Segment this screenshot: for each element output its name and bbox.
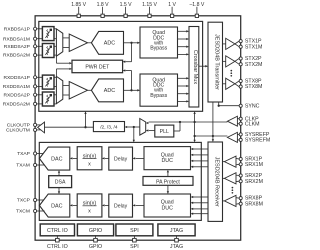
svg-text:PWR DET: PWR DET xyxy=(85,64,110,70)
svg-text:1 V: 1 V xyxy=(168,2,176,8)
svg-text:STX2M: STX2M xyxy=(245,62,263,68)
svg-text:ADC: ADC xyxy=(104,88,115,94)
svg-text:Delay: Delay xyxy=(114,203,128,209)
svg-text:CTRL IO: CTRL IO xyxy=(47,244,68,250)
svg-text:RXBDSA1M: RXBDSA1M xyxy=(3,36,30,42)
svg-text:SRX8M: SRX8M xyxy=(245,201,263,207)
svg-text:JTAG: JTAG xyxy=(170,244,183,250)
svg-text:STX1M: STX1M xyxy=(245,44,263,50)
svg-text:DAC: DAC xyxy=(51,203,62,209)
svg-text:SYNC: SYNC xyxy=(245,103,260,109)
svg-text:RXDDSA2M: RXDDSA2M xyxy=(3,101,30,107)
svg-text:JESD204B Receiver: JESD204B Receiver xyxy=(214,157,220,207)
svg-text:x: x xyxy=(88,209,91,215)
svg-text:SRX2M: SRX2M xyxy=(245,179,263,185)
svg-text:Bypass: Bypass xyxy=(150,93,167,99)
svg-text:SPI: SPI xyxy=(130,244,139,250)
svg-text:CTRL IO: CTRL IO xyxy=(47,228,68,234)
svg-text:DAC: DAC xyxy=(51,156,62,162)
svg-text:Delay: Delay xyxy=(114,156,128,162)
svg-text:TXCP: TXCP xyxy=(17,198,30,204)
svg-text:TXAP: TXAP xyxy=(17,151,30,157)
svg-text:SYSREFM: SYSREFM xyxy=(245,137,270,143)
svg-text:TXCM: TXCM xyxy=(16,209,30,215)
svg-text:DUC: DUC xyxy=(161,158,173,164)
svg-text:CLKOUTM: CLKOUTM xyxy=(6,127,30,133)
svg-text:DSA: DSA xyxy=(55,180,66,186)
svg-text:SRX1M: SRX1M xyxy=(245,162,263,168)
svg-text:RXDDSA1P: RXDDSA1P xyxy=(4,75,30,81)
svg-text:Crossbar Mux: Crossbar Mux xyxy=(192,50,198,84)
svg-text:RXBDSA2P: RXBDSA2P xyxy=(4,44,30,50)
svg-text:RXDDSA2P: RXDDSA2P xyxy=(4,92,30,98)
svg-text:STX8M: STX8M xyxy=(245,84,263,90)
svg-text:1.85 V: 1.85 V xyxy=(71,2,86,8)
svg-text:GPIO: GPIO xyxy=(89,228,102,234)
svg-text:/2, /3, /4: /2, /3, /4 xyxy=(100,124,118,130)
svg-text:RXDDSA1M: RXDDSA1M xyxy=(3,84,30,90)
svg-text:Bypass: Bypass xyxy=(150,46,167,52)
svg-text:ADC: ADC xyxy=(104,41,115,47)
svg-text:PLL: PLL xyxy=(160,129,169,135)
svg-text:CLKM: CLKM xyxy=(245,121,260,127)
svg-text:DUC: DUC xyxy=(161,206,173,212)
svg-text:1.8 V: 1.8 V xyxy=(97,2,110,8)
svg-text:PA Protect: PA Protect xyxy=(156,179,180,185)
svg-text:GPIO: GPIO xyxy=(89,244,102,250)
svg-text:1.5 V: 1.5 V xyxy=(120,2,133,8)
svg-text:RXBDSA1P: RXBDSA1P xyxy=(4,26,30,32)
svg-text:SPI: SPI xyxy=(130,228,139,234)
svg-text:TXAM: TXAM xyxy=(16,163,30,169)
svg-text:JESD204B Transmitter: JESD204B Transmitter xyxy=(214,34,220,90)
svg-text:1.15 V: 1.15 V xyxy=(142,2,157,8)
svg-text:JTAG: JTAG xyxy=(170,228,183,234)
svg-text:–1.8 V: –1.8 V xyxy=(189,2,204,8)
svg-text:x: x xyxy=(88,162,91,168)
svg-text:RXBDSA2M: RXBDSA2M xyxy=(3,53,30,59)
